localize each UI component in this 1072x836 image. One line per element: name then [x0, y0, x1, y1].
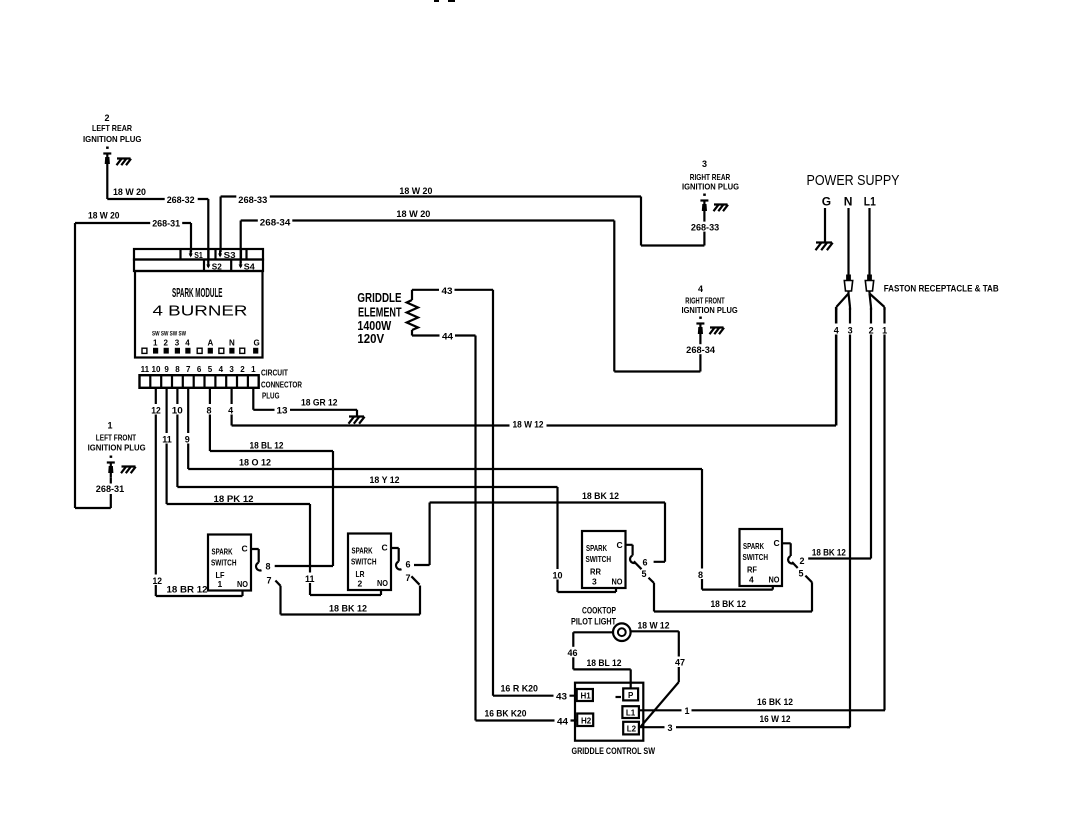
griddle control switch — [572, 683, 656, 756]
svg-text:SWITCH: SWITCH — [743, 552, 769, 562]
svg-text:12: 12 — [153, 576, 163, 586]
svg-text:7: 7 — [186, 365, 191, 374]
svg-text:268-34: 268-34 — [260, 218, 291, 228]
svg-text:4: 4 — [219, 365, 224, 374]
svg-text:C: C — [617, 540, 623, 550]
svg-text:18 W 12: 18 W 12 — [513, 420, 544, 430]
svg-text:G: G — [254, 339, 260, 348]
ignition plug 4 (right front) — [682, 284, 739, 339]
wire 18 BK 12 (RR contact 5 to RF contact 5) — [649, 576, 813, 612]
svg-text:COOKTOP: COOKTOP — [582, 606, 616, 616]
svg-text:NO: NO — [377, 578, 388, 588]
svg-text:4: 4 — [749, 575, 754, 585]
svg-text:2: 2 — [358, 579, 363, 589]
svg-text:16 BK K20: 16 BK K20 — [485, 709, 527, 719]
svg-text:GRIDDLE CONTROL SW: GRIDDLE CONTROL SW — [572, 746, 656, 756]
svg-text:S4: S4 — [244, 261, 255, 271]
svg-text:N: N — [229, 339, 235, 348]
svg-text:46: 46 — [568, 648, 578, 658]
svg-text:3: 3 — [848, 326, 853, 336]
svg-text:C: C — [242, 544, 248, 554]
svg-text:120V: 120V — [357, 331, 384, 346]
svg-text:1: 1 — [108, 421, 113, 431]
spark switch LR (2) — [348, 534, 420, 591]
spark switch RF (4) — [740, 529, 805, 586]
svg-text:RF: RF — [747, 565, 757, 575]
svg-text:4: 4 — [834, 326, 839, 336]
wire 10 (pin 8 to spark switch RR NO, 18 Y 12) — [170, 388, 616, 592]
svg-text:SPARK: SPARK — [743, 541, 765, 551]
svg-text:11: 11 — [141, 365, 150, 374]
svg-text:IGNITION PLUG: IGNITION PLUG — [682, 305, 739, 315]
title fragment (cropped text at top edge) — [434, 0, 455, 2]
wire 43 (griddle element to H1, 16 R K20) — [493, 290, 577, 702]
svg-text:N: N — [844, 195, 853, 209]
wire 47 (pilot light to L2, 18 W 12) — [631, 621, 686, 727]
svg-text:6: 6 — [406, 560, 411, 570]
ground at wire 13 — [349, 417, 365, 424]
svg-text:G: G — [822, 195, 831, 209]
wire 268-32 (plug 2 to S2, 18 W 20) — [107, 168, 208, 262]
svg-text:S2: S2 — [212, 261, 222, 271]
svg-text:18 W 12: 18 W 12 — [638, 621, 670, 631]
svg-text:L2: L2 — [627, 725, 637, 734]
power tab wire 1 — [879, 308, 890, 710]
ground at plug 1 — [121, 467, 136, 474]
svg-text:16 BK 12: 16 BK 12 — [757, 697, 793, 707]
svg-text:18 GR 12: 18 GR 12 — [301, 398, 338, 408]
wire 13 (pin 1 to ground, 18 GR 12) — [253, 388, 357, 416]
svg-text:9: 9 — [164, 365, 169, 374]
svg-text:POWER SUPPY: POWER SUPPY — [807, 173, 900, 189]
svg-text:2: 2 — [869, 326, 874, 336]
svg-text:9: 9 — [185, 434, 190, 444]
svg-text:3: 3 — [175, 339, 180, 348]
svg-text:LEFT FRONT: LEFT FRONT — [96, 433, 137, 443]
wire 11 (pin 9 to spark switch LR NO, 18 PK 12) — [160, 388, 381, 595]
spark switch LF (1) — [208, 535, 281, 591]
griddle element R1 — [357, 285, 493, 346]
svg-text:10: 10 — [152, 365, 161, 374]
svg-text:18 PK 12: 18 PK 12 — [214, 494, 254, 504]
svg-text:CONNECTOR: CONNECTOR — [261, 379, 302, 389]
svg-text:18 BK 12: 18 BK 12 — [329, 604, 367, 614]
svg-text:4: 4 — [698, 284, 703, 294]
svg-text:SPARK: SPARK — [352, 546, 374, 556]
spark module U1 terminal row 2 (S2 S4) — [134, 260, 263, 272]
svg-text:A: A — [208, 339, 214, 348]
wire 12 (pin 10 to spark switch LF NO, 18 BR 12) — [149, 388, 242, 596]
svg-text:1: 1 — [882, 326, 887, 336]
svg-text:SWITCH: SWITCH — [586, 554, 612, 564]
svg-text:268-31: 268-31 — [96, 484, 124, 494]
circuit connector plug J1 — [140, 365, 303, 401]
svg-text:S3: S3 — [224, 250, 236, 260]
svg-text:1: 1 — [218, 579, 223, 589]
svg-text:SPARK: SPARK — [586, 543, 608, 553]
svg-text:FASTON RECEPTACLE & TAB: FASTON RECEPTACLE & TAB — [884, 284, 999, 294]
svg-text:2: 2 — [800, 556, 805, 566]
wire 1 (L1 to power tab 1, 16 BK 12) — [639, 697, 885, 716]
svg-text:18 W 20: 18 W 20 — [396, 209, 430, 219]
svg-text:7: 7 — [406, 573, 411, 583]
power supply title — [807, 173, 900, 209]
ground at plug 3 — [714, 205, 729, 212]
svg-text:268-33: 268-33 — [691, 222, 719, 232]
svg-text:8: 8 — [207, 405, 212, 415]
power lead L1 with faston — [865, 208, 884, 310]
svg-text:SWITCH: SWITCH — [351, 557, 377, 567]
svg-text:8: 8 — [175, 365, 180, 374]
svg-text:18 BL 12: 18 BL 12 — [250, 441, 284, 451]
svg-text:268-34: 268-34 — [686, 345, 715, 355]
svg-text:268-31: 268-31 — [152, 219, 180, 229]
svg-text:18 W 20: 18 W 20 — [399, 186, 432, 196]
svg-text:4: 4 — [185, 339, 190, 348]
svg-text:18 BK 12: 18 BK 12 — [711, 599, 747, 609]
svg-text:5: 5 — [642, 569, 647, 579]
faston receptacle label — [884, 284, 999, 294]
svg-text:2: 2 — [105, 113, 110, 123]
svg-text:18 BR 12: 18 BR 12 — [167, 585, 208, 595]
wire 268-34 (S4 to plug 4, 18 W 20) — [241, 209, 717, 372]
ground at plug 4 — [710, 328, 725, 335]
svg-text:18 W 20: 18 W 20 — [113, 187, 146, 197]
svg-text:5: 5 — [208, 365, 213, 374]
svg-text:268-32: 268-32 — [167, 195, 195, 205]
svg-text:2: 2 — [240, 365, 245, 374]
svg-text:44: 44 — [557, 717, 568, 727]
svg-text:268-33: 268-33 — [238, 195, 267, 205]
wire 268-33 (S3 to plug 3, 18 W 20) — [221, 186, 722, 252]
wire 8 (pin 5 to spark switch LF contact, 18 BL 12) — [204, 388, 333, 566]
svg-text:10: 10 — [553, 570, 563, 580]
svg-text:1: 1 — [153, 339, 158, 348]
svg-text:1: 1 — [685, 706, 690, 716]
wire 44 (griddle element to H2, 16 BK K20) — [476, 336, 578, 727]
cooktop pilot light DS1 — [571, 606, 631, 642]
svg-text:43: 43 — [556, 692, 567, 702]
svg-text:3: 3 — [668, 723, 673, 733]
wire 3 (L2 to power tab 3, 16 W 12) — [639, 714, 850, 733]
svg-text:SPARK MODULE: SPARK MODULE — [172, 285, 223, 300]
power tab wire 4 — [831, 308, 842, 426]
svg-text:SW SW SW SW: SW SW SW SW — [152, 331, 187, 338]
svg-text:H2: H2 — [581, 717, 592, 726]
svg-text:GRIDDLE: GRIDDLE — [357, 290, 401, 305]
wire 2 (RF contact 2 to power tab 2, 18 BK 12) — [808, 548, 871, 559]
svg-text:LR: LR — [356, 569, 365, 579]
svg-text:NO: NO — [237, 579, 248, 589]
svg-text:IGNITION PLUG: IGNITION PLUG — [682, 181, 739, 191]
svg-text:18 BK 12: 18 BK 12 — [582, 491, 619, 501]
svg-text:SPARK: SPARK — [212, 547, 234, 557]
svg-text:3: 3 — [229, 365, 234, 374]
ground at plug 2 — [117, 159, 132, 166]
svg-text:13: 13 — [277, 406, 288, 416]
svg-text:18 Y 12: 18 Y 12 — [370, 475, 400, 485]
svg-text:47: 47 — [675, 658, 685, 668]
power tab wire 3 — [845, 308, 856, 727]
svg-text:L1: L1 — [626, 709, 636, 718]
svg-text:16 R K20: 16 R K20 — [501, 684, 539, 694]
wire 46 (pilot light to P, 18 BL 12) — [565, 632, 631, 688]
svg-text:S1: S1 — [194, 250, 203, 260]
svg-text:18 O 12: 18 O 12 — [239, 458, 271, 468]
svg-text:IGNITION PLUG: IGNITION PLUG — [83, 134, 142, 144]
ignition plug 1 (left front) — [88, 421, 146, 478]
power lead N with faston — [836, 208, 852, 310]
svg-text:3: 3 — [592, 577, 597, 587]
svg-text:12: 12 — [151, 405, 161, 415]
svg-text:8: 8 — [266, 562, 271, 572]
svg-text:43: 43 — [442, 286, 453, 296]
svg-text:18 BL 12: 18 BL 12 — [587, 658, 622, 668]
svg-text:4: 4 — [228, 405, 233, 415]
svg-text:7: 7 — [267, 576, 272, 586]
svg-text:3: 3 — [702, 159, 707, 169]
svg-text:4 BURNER: 4 BURNER — [153, 304, 248, 320]
spark switch RR (3) — [582, 531, 648, 588]
svg-text:PLUG: PLUG — [262, 391, 280, 401]
svg-text:CIRCUIT: CIRCUIT — [261, 368, 289, 378]
svg-text:44: 44 — [442, 332, 453, 342]
svg-text:6: 6 — [197, 365, 202, 374]
svg-text:PILOT LIGHT: PILOT LIGHT — [571, 617, 616, 627]
svg-text:IGNITION PLUG: IGNITION PLUG — [88, 442, 146, 452]
svg-text:8: 8 — [698, 570, 703, 580]
svg-text:C: C — [774, 538, 780, 548]
svg-text:C: C — [382, 543, 388, 553]
wire 9 (pin 7 to spark switch RF NO, 18 O 12) — [182, 388, 773, 590]
svg-text:NO: NO — [612, 577, 623, 587]
wire 18 BK 12 (LR contact 6 to RR contact 6) — [414, 491, 665, 565]
power ground lead G — [816, 208, 833, 250]
svg-text:H1: H1 — [581, 692, 592, 701]
svg-text:18 W 20: 18 W 20 — [88, 211, 120, 221]
ignition plug 2 (left rear) — [83, 113, 142, 168]
svg-text:11: 11 — [305, 574, 315, 584]
spark module U1 terminal row 1 (S1 S3) — [134, 249, 263, 260]
svg-text:2: 2 — [164, 339, 169, 348]
wire 18 BK 12 (LF contact 7 to LR contact 7) — [281, 586, 421, 615]
svg-text:NO: NO — [769, 575, 780, 585]
svg-text:18 BK 12: 18 BK 12 — [812, 548, 846, 558]
wire 4 (pin 3 to power tab 4, 18 W 12) — [226, 307, 836, 430]
spark module U1 body — [135, 271, 263, 358]
svg-text:1: 1 — [251, 365, 256, 374]
power tab wire 2 — [866, 308, 877, 559]
ignition plug 3 (right rear) — [682, 159, 739, 215]
wire 268-31 (plug 1 to S1, 18 W 20) — [75, 211, 191, 509]
svg-text:L1: L1 — [864, 195, 876, 209]
svg-text:10: 10 — [172, 405, 183, 415]
svg-text:11: 11 — [162, 434, 172, 444]
svg-text:6: 6 — [643, 558, 648, 568]
svg-text:16 W 12: 16 W 12 — [760, 714, 791, 724]
svg-text:RR: RR — [590, 567, 601, 577]
svg-text:LEFT REAR: LEFT REAR — [92, 123, 132, 133]
svg-text:SWITCH: SWITCH — [211, 558, 237, 568]
svg-text:5: 5 — [799, 569, 804, 579]
svg-text:P: P — [628, 691, 634, 700]
